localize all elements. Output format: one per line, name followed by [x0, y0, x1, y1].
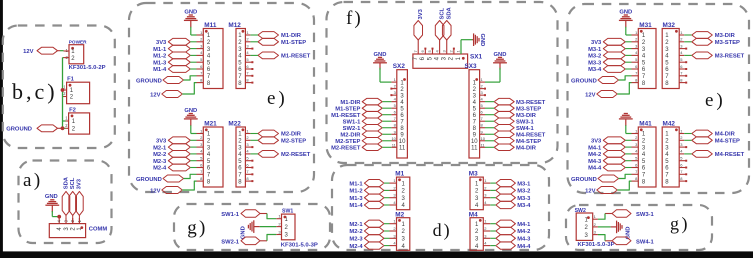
junction at COMM pin4	[57, 215, 61, 219]
net flag SCL (a)	[69, 177, 77, 223]
svg-text:M3-2: M3-2	[517, 189, 530, 195]
svg-text:10: 10	[391, 136, 396, 141]
net flag M4-STEP (SX3)	[485, 138, 541, 145]
svg-text:SX2: SX2	[393, 63, 406, 70]
svg-text:11: 11	[471, 146, 478, 152]
net flag 3V3	[591, 137, 632, 145]
ground symbol above M11	[184, 10, 198, 28]
svg-text:M12: M12	[228, 22, 241, 29]
net flag M2-2 (d)	[349, 227, 389, 235]
svg-text:M1: M1	[395, 171, 404, 178]
net flag M4-DIR	[684, 130, 735, 138]
net flag 3V3	[156, 137, 197, 145]
svg-text:M3-4: M3-4	[517, 203, 531, 209]
net flag M4-3	[588, 157, 631, 165]
svg-text:M3-1: M3-1	[517, 181, 531, 187]
svg-text:M1-RESET: M1-RESET	[281, 54, 311, 60]
svg-text:M1-3: M1-3	[349, 196, 363, 202]
svg-text:GND: GND	[374, 52, 387, 58]
svg-text:M4-RESET: M4-RESET	[715, 152, 745, 158]
svg-text:M2-4: M2-4	[153, 166, 167, 172]
wire POWER pin2 down to fuses	[63, 57, 64, 59]
svg-text:M3-DIR: M3-DIR	[715, 33, 736, 39]
svg-text:SW1-1: SW1-1	[221, 212, 239, 218]
svg-text:SW2: SW2	[575, 208, 586, 214]
svg-text:KF301-5.0-2P: KF301-5.0-2P	[69, 65, 106, 71]
svg-text:SW4-1: SW4-1	[516, 126, 534, 132]
svg-text:GND: GND	[479, 34, 485, 47]
svg-text:b,c): b,c)	[12, 79, 58, 104]
svg-text:M1-DIR: M1-DIR	[281, 33, 302, 39]
connector M4	[469, 211, 491, 250]
net flag 3V3 (a)	[76, 178, 84, 223]
connector M42	[662, 121, 687, 187]
svg-text:GROUND: GROUND	[136, 78, 162, 84]
net flag GROUND (M11)	[136, 76, 196, 85]
svg-text:M3-1: M3-1	[588, 47, 602, 53]
ground symbol above SX2	[373, 52, 387, 70]
net flag M1-4 (d)	[349, 201, 389, 209]
svg-text:F2: F2	[69, 107, 76, 113]
wire GND to M21 pin1	[190, 125, 192, 133]
svg-text:10: 10	[481, 136, 486, 141]
svg-text:M1-3: M1-3	[153, 60, 167, 66]
svg-text:M4-STEP: M4-STEP	[715, 139, 740, 145]
connector M22	[228, 121, 253, 187]
connector M21	[197, 121, 224, 187]
svg-text:M32: M32	[663, 22, 676, 29]
svg-text:SW4-1: SW4-1	[636, 239, 654, 245]
ground symbol (g right)	[611, 221, 632, 240]
net flag M2-3	[153, 157, 196, 165]
wire GND to COMM pin4	[51, 211, 53, 217]
svg-text:POWER: POWER	[69, 39, 87, 44]
net flag M1-STEP	[250, 38, 306, 46]
svg-text:12V: 12V	[150, 188, 160, 194]
connector M12	[228, 22, 253, 88]
svg-text:M4-1: M4-1	[517, 222, 531, 228]
net flag 3V3	[156, 38, 197, 46]
svg-text:M1-STEP: M1-STEP	[335, 106, 360, 112]
wire GND to SW2 pin2	[598, 226, 611, 228]
ground symbol above M21	[184, 108, 198, 126]
svg-text:M4-2: M4-2	[517, 229, 530, 235]
net flag M4-4	[588, 164, 631, 172]
svg-text:SW1-1: SW1-1	[343, 119, 361, 125]
svg-text:M2-4: M2-4	[349, 244, 363, 250]
svg-text:GND: GND	[184, 108, 197, 114]
svg-text:M2-RESET: M2-RESET	[331, 146, 361, 152]
net flag SW2-1	[221, 235, 276, 246]
net flag SW1-1 (SX2)	[343, 118, 392, 125]
fuse holder F2	[65, 107, 89, 134]
connector M2	[390, 211, 410, 250]
ground symbol (g left)	[241, 220, 260, 239]
net flag M3-RESET	[684, 52, 744, 60]
net flag M3-3	[588, 59, 631, 67]
black left edge bar	[0, 0, 3, 258]
svg-text:M4-4: M4-4	[517, 244, 531, 250]
svg-text:M1-1: M1-1	[153, 47, 167, 53]
svg-text:M4-DIR: M4-DIR	[516, 146, 537, 152]
net flag M3-STEP	[684, 38, 740, 46]
section border d	[332, 165, 549, 250]
svg-text:e): e)	[705, 90, 726, 111]
net flag M1-1 (d)	[349, 180, 389, 188]
svg-text:SX3: SX3	[465, 63, 478, 70]
net flag M1-RESET (SX2)	[331, 111, 391, 118]
svg-text:M11: M11	[204, 22, 217, 29]
net flag M2-1 (d)	[349, 220, 389, 228]
svg-text:12V: 12V	[150, 92, 160, 98]
connector M32	[662, 22, 687, 88]
svg-text:a): a)	[23, 170, 43, 191]
net flag M2-4 (d)	[349, 242, 389, 250]
svg-text:GROUND: GROUND	[571, 177, 597, 183]
svg-text:SCL: SCL	[440, 7, 446, 19]
svg-text:M4-1: M4-1	[588, 145, 602, 151]
black bottom edge bar	[0, 251, 753, 258]
net flag M4-RESET (SX3)	[485, 131, 546, 138]
net flag M3-RESET (SX3)	[485, 98, 546, 105]
net flag M3-1	[588, 45, 631, 53]
net flag M2-3 (d)	[349, 235, 389, 243]
net flag M2-STEP (SX2)	[335, 138, 391, 145]
connector M11	[197, 22, 224, 88]
ground symbol above M41	[619, 114, 633, 126]
net flag M1-DIR (SX2)	[340, 98, 391, 105]
connector M31	[632, 22, 657, 88]
svg-text:12V: 12V	[585, 188, 595, 194]
svg-text:3V3: 3V3	[591, 40, 602, 46]
svg-text:f): f)	[346, 8, 363, 29]
svg-text:M2-2: M2-2	[153, 152, 166, 158]
wire GND to SX2 pin1	[379, 68, 381, 82]
connector POWER (KF301-5.0-2P)	[64, 39, 88, 63]
svg-text:M4-DIR: M4-DIR	[715, 132, 736, 138]
svg-text:M1-1: M1-1	[349, 181, 363, 187]
svg-text:M1-4: M1-4	[349, 203, 363, 209]
svg-text:GND: GND	[619, 10, 632, 16]
wire GND to M31 pin1	[625, 27, 627, 35]
svg-text:M3-STEP: M3-STEP	[715, 40, 740, 46]
net flag M4-1	[588, 144, 631, 152]
fuse holder F1	[63, 77, 89, 104]
svg-text:M21: M21	[204, 121, 217, 128]
net flag M2-4	[153, 164, 196, 172]
net flag M1-4	[153, 66, 196, 74]
net flag M2-DIR	[250, 130, 301, 138]
net flag M4-STEP	[684, 137, 740, 145]
svg-text:SW3-1: SW3-1	[636, 212, 654, 218]
svg-text:M4-3: M4-3	[517, 237, 531, 243]
net flag M1-STEP (SX2)	[335, 105, 391, 112]
connector COMM	[49, 218, 85, 238]
net flag SW2-1 (SX2)	[343, 124, 392, 131]
section border g right	[566, 205, 712, 250]
svg-text:M4-3: M4-3	[588, 159, 602, 165]
net flag M4-1 (d)	[490, 220, 531, 228]
svg-text:M1-2: M1-2	[349, 189, 362, 195]
svg-text:M4-4: M4-4	[588, 166, 602, 172]
connector SX3	[465, 63, 487, 158]
net flag 12V (M41)	[585, 181, 631, 194]
net flag M2-1	[153, 144, 196, 152]
svg-text:M4-STEP: M4-STEP	[516, 139, 541, 145]
net flag M3-2	[588, 52, 631, 60]
svg-text:F1: F1	[67, 77, 75, 83]
net flag M1-3	[153, 59, 196, 67]
svg-text:SDA: SDA	[63, 176, 69, 189]
connector SX1	[413, 48, 483, 69]
svg-text:M2-STEP: M2-STEP	[335, 139, 360, 145]
svg-text:M2-STEP: M2-STEP	[281, 139, 306, 145]
net flag M3-1 (d)	[490, 180, 531, 188]
svg-text:GND: GND	[184, 10, 197, 16]
junction at F1	[61, 88, 65, 92]
svg-text:M2-1: M2-1	[349, 222, 363, 228]
svg-text:SW1: SW1	[282, 208, 293, 214]
net flag M4-DIR (SX3)	[485, 144, 537, 151]
section border f	[327, 2, 558, 163]
svg-text:M4-RESET: M4-RESET	[516, 132, 546, 138]
connector M3	[469, 171, 491, 210]
wire to F2 pin1	[63, 120, 66, 122]
svg-text:M1-RESET: M1-RESET	[331, 113, 361, 119]
net flag 12V (M11)	[150, 83, 196, 99]
svg-text:SCL: SCL	[70, 177, 76, 189]
svg-text:KF301-5.0-3P: KF301-5.0-3P	[281, 243, 318, 249]
svg-text:M2-DIR: M2-DIR	[340, 132, 361, 138]
svg-text:M3-3: M3-3	[517, 196, 531, 202]
wire 12V to POWER pin1	[58, 50, 61, 52]
connector M41	[632, 121, 657, 187]
net flag GROUND (M21)	[136, 174, 196, 183]
svg-text:M3-DIR: M3-DIR	[516, 113, 537, 119]
net flag M4-2 (d)	[490, 227, 530, 235]
net flag M3-STEP (SX3)	[485, 105, 541, 112]
svg-text:GROUND: GROUND	[571, 78, 597, 84]
net flag M1-2 (d)	[349, 187, 389, 195]
svg-text:M3-2: M3-2	[588, 54, 601, 60]
svg-text:M1-2: M1-2	[153, 54, 166, 60]
svg-text:SW2-1: SW2-1	[221, 239, 239, 245]
section border e right	[568, 4, 750, 193]
svg-text:M42: M42	[663, 121, 676, 128]
svg-text:GROUND: GROUND	[6, 127, 32, 133]
svg-text:3V3: 3V3	[156, 40, 167, 46]
svg-text:GND: GND	[494, 52, 507, 58]
svg-text:GND: GND	[45, 194, 58, 200]
svg-text:3V3: 3V3	[418, 8, 424, 19]
net flag GROUND (M41)	[571, 174, 631, 183]
svg-text:M1-DIR: M1-DIR	[340, 100, 361, 106]
net flag 3V3 (f)	[414, 8, 424, 54]
ground symbol above SX3	[493, 52, 507, 70]
net flag 12V (M21)	[150, 181, 196, 194]
wire to F2 pin2	[63, 127, 66, 129]
svg-text:M3-3: M3-3	[588, 60, 602, 66]
svg-text:M1-STEP: M1-STEP	[281, 40, 306, 46]
wire to F1 pin2	[63, 96, 64, 98]
ground symbol (a)	[45, 194, 59, 212]
wire GND to M41 pin1	[625, 125, 627, 133]
svg-text:M3-RESET: M3-RESET	[516, 100, 546, 106]
net flag 12V (M31)	[585, 83, 631, 99]
svg-text:10: 10	[399, 139, 406, 145]
svg-text:M3-STEP: M3-STEP	[516, 106, 541, 112]
wire GND to SX3 pin1	[499, 68, 501, 82]
net flag SDA (a)	[62, 176, 70, 223]
svg-text:g): g)	[670, 213, 690, 234]
net flag GROUND (b,c)	[6, 125, 61, 133]
net flag M3-4 (d)	[490, 201, 531, 209]
net flag M1-1	[153, 45, 196, 53]
net flag M4-2	[588, 151, 631, 159]
net flag M1-2	[153, 52, 196, 60]
section border a	[19, 161, 112, 244]
net flag SW1-1	[221, 210, 276, 219]
svg-text:M2-3: M2-3	[349, 237, 363, 243]
connector SW2 (KF301-5.0-3P)	[575, 208, 615, 248]
svg-text:M41: M41	[639, 121, 652, 128]
net flag SW3-1 (SX3)	[485, 118, 534, 125]
net flag M1-RESET	[250, 52, 310, 60]
net flag M1-3 (d)	[349, 194, 389, 202]
net flag M1-DIR	[250, 32, 301, 40]
svg-text:KF301-5.0-3P: KF301-5.0-3P	[578, 242, 615, 248]
svg-text:10: 10	[471, 139, 478, 145]
net flag SCL (f)	[435, 7, 445, 54]
net flag 12V	[23, 47, 57, 55]
wire GND to SW pin2	[260, 226, 277, 228]
svg-text:SX1: SX1	[470, 54, 483, 61]
net flag M4-3 (d)	[490, 235, 531, 243]
svg-text:M1-4: M1-4	[153, 67, 167, 73]
svg-text:g): g)	[187, 217, 207, 238]
wire SX1 pin1 to GND	[461, 40, 472, 54]
svg-text:M2-3: M2-3	[153, 159, 167, 165]
net flag SW3-1	[598, 210, 655, 220]
net flag M3-DIR	[684, 32, 735, 40]
svg-text:GROUND: GROUND	[136, 177, 162, 183]
net flag M2-STEP	[250, 137, 306, 145]
section border b,c	[3, 26, 115, 149]
svg-text:M4-2: M4-2	[588, 152, 601, 158]
net flag M3-3 (d)	[490, 194, 531, 202]
svg-text:M3-4: M3-4	[588, 67, 602, 73]
svg-text:M2-RESET: M2-RESET	[281, 152, 311, 158]
wire GND to M11 pin1	[190, 27, 192, 35]
svg-text:e): e)	[267, 88, 288, 109]
svg-text:3V3: 3V3	[591, 139, 602, 145]
net flag SDA (f)	[442, 6, 452, 54]
net flag M3-DIR (SX3)	[485, 111, 537, 118]
svg-text:M22: M22	[228, 121, 241, 128]
net flag GROUND (M31)	[571, 76, 631, 85]
connector SX2	[390, 63, 407, 158]
svg-text:SW2-1: SW2-1	[343, 126, 361, 132]
net flag M3-4	[588, 66, 631, 74]
svg-text:SW3-1: SW3-1	[516, 119, 534, 125]
net flag M4-RESET	[684, 151, 744, 159]
net flag M2-2	[153, 151, 196, 159]
svg-text:SDA: SDA	[447, 6, 453, 19]
section border g left	[174, 204, 330, 250]
svg-text:12V: 12V	[585, 92, 595, 98]
svg-text:M31: M31	[639, 22, 652, 29]
net flag 3V3	[591, 38, 632, 46]
wire to F1 pin1	[63, 89, 64, 91]
svg-text:d): d)	[433, 220, 452, 241]
net flag SW4-1	[598, 235, 655, 246]
svg-text:3V3: 3V3	[77, 178, 83, 189]
svg-text:M3: M3	[469, 171, 478, 178]
junction at F2 / GROUND	[61, 126, 65, 130]
svg-text:M2-1: M2-1	[153, 145, 167, 151]
svg-text:M4: M4	[469, 211, 478, 218]
svg-text:12V: 12V	[23, 49, 33, 55]
net flag SW4-1 (SX3)	[485, 124, 534, 131]
net flag M4-4 (d)	[490, 242, 531, 250]
svg-text:M2-2: M2-2	[349, 229, 362, 235]
net flag M2-RESET (SX2)	[331, 144, 391, 151]
ground symbol above M31	[619, 10, 633, 28]
section border e left	[129, 3, 314, 192]
svg-text:3V3: 3V3	[156, 139, 167, 145]
svg-text:COMM: COMM	[89, 226, 108, 232]
connector SW1 (KF301-5.0-3P)	[276, 208, 318, 248]
net flag M2-RESET	[250, 151, 310, 159]
svg-text:M2-DIR: M2-DIR	[281, 132, 302, 138]
ground symbol right of SX1	[472, 33, 485, 46]
svg-text:M3-RESET: M3-RESET	[715, 54, 745, 60]
net flag M3-2 (d)	[490, 187, 530, 195]
connector M1	[390, 171, 410, 210]
svg-text:11: 11	[399, 146, 406, 152]
net flag M2-DIR (SX2)	[340, 131, 391, 138]
svg-text:M2: M2	[395, 211, 404, 218]
